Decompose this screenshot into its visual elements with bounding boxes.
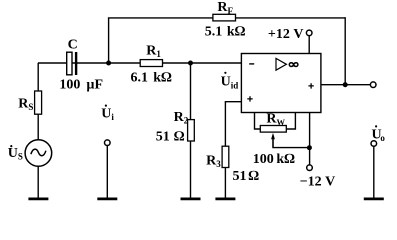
label Uid: [221, 72, 239, 91]
junction: wiper / -12V leg: [307, 145, 312, 150]
terminal Uo: [371, 141, 377, 147]
op-amp U1: [241, 54, 321, 113]
resistor R3: [222, 146, 229, 167]
svg-text:Ω: Ω: [248, 169, 259, 184]
wire: offset-null left leg to RW: [255, 113, 261, 130]
wire: offset-null right leg to RW: [286, 113, 295, 130]
potentiometer RW: [260, 126, 286, 148]
ground (source): [28, 197, 48, 200]
label Uo: [372, 125, 386, 143]
svg-text:100: 100: [253, 152, 274, 167]
svg-text:−12 V: −12 V: [300, 174, 336, 189]
svg-text:100: 100: [59, 77, 80, 92]
terminal +12V: [306, 30, 312, 36]
terminal: output: [370, 82, 376, 88]
svg-text:kΩ: kΩ: [153, 70, 172, 85]
svg-text:5.1: 5.1: [205, 24, 223, 39]
wire: Ui measurement stem to ground: [106, 145, 108, 198]
svg-text:C: C: [68, 37, 78, 52]
resistor R1: [140, 60, 162, 67]
wire: -12V supply pin down from op-amp bottom: [309, 113, 311, 165]
source US: [25, 140, 52, 167]
wire: RW wiper to -12V node: [273, 136, 309, 148]
wire: R2 branch from rail to ground: [190, 63, 192, 198]
wire: source branch down through RS to US and ground: [37, 63, 39, 198]
ground (R3): [215, 197, 235, 200]
resistor R2: [188, 120, 195, 141]
wire: input rail from source top to op-amp inverting input: [38, 62, 242, 64]
capacitor C: [67, 52, 78, 75]
wire: feedback drop to output node: [344, 17, 346, 85]
ground (R2): [181, 197, 201, 200]
ground (Ui): [97, 197, 117, 200]
svg-text:Ω: Ω: [174, 130, 185, 145]
svg-text:kΩ: kΩ: [276, 152, 295, 167]
ground (Uo): [364, 197, 384, 200]
label US: [8, 145, 23, 162]
terminal Ui: [105, 140, 111, 146]
wire: +12V supply to op-amp top: [308, 36, 310, 54]
svg-text:6.1: 6.1: [131, 70, 149, 85]
junction: output / feedback drop: [343, 82, 348, 87]
svg-text:kΩ: kΩ: [227, 24, 246, 39]
junction: input rail / R2 branch: [188, 61, 193, 66]
terminal -12V: [307, 165, 313, 171]
svg-text:51: 51: [156, 130, 170, 145]
wire: op-amp output to terminal: [321, 84, 371, 86]
svg-text:+12 V: +12 V: [268, 27, 304, 42]
svg-text:µF: µF: [86, 77, 103, 92]
wire: feedback top rail through RF: [108, 17, 345, 19]
wire: feedback riser at input node: [108, 18, 110, 64]
resistor RS: [35, 91, 42, 114]
wire: non-inverting input branch through R3 to ground: [225, 102, 241, 199]
resistor RF: [213, 14, 236, 21]
junction: input rail / feedback riser: [106, 61, 111, 66]
svg-text:51: 51: [233, 169, 247, 184]
label Ui: [101, 105, 114, 123]
wire: Uo measurement stem to ground: [373, 146, 375, 198]
